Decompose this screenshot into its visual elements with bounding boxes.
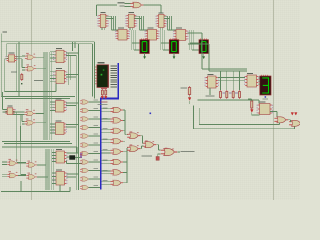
wire U2:A output to bundle: [36, 53, 44, 57]
wire U19 bottom: [209, 88, 211, 95]
wire U10:A output: [37, 152, 46, 165]
555 timer U21: [257, 101, 272, 114]
led D10: [295, 113, 298, 116]
wire U11 outputs: [2, 147, 82, 158]
wire U18 to right cluster: [187, 33, 209, 71]
text under leds: [101, 102, 108, 103]
wire 555 left: [248, 99, 260, 115]
ground dot DISP1: [144, 57, 146, 59]
wire U6:B output to bundle: [35, 110, 46, 123]
wire U4 outputs right: [66, 75, 78, 78]
7-segment display DISP1: [140, 38, 150, 53]
wire block B bottom: [2, 126, 72, 144]
schematic background: [0, 0, 300, 200]
wire long horizontal lower: [7, 44, 93, 190]
wire bundle to IC pin stubs: [50, 52, 56, 184]
wire U3 outputs right: [66, 53, 79, 56]
xor gate U9:A: [7, 161, 18, 166]
wire U5 outputs down to block C: [17, 113, 26, 175]
wire input vertical for gate column: [75, 56, 77, 190]
resistor R1: [21, 73, 23, 81]
nand gate column left G6: [80, 143, 90, 147]
junction dot: [21, 83, 22, 84]
DISP4 bottom label: [263, 98, 269, 99]
led D8: [251, 110, 254, 113]
wire 555 to H9: [270, 112, 277, 117]
wire bundle U18 to display: [190, 30, 194, 50]
wire U9 to U10: [18, 163, 26, 175]
and gate column right H1: [111, 107, 124, 112]
wire return outer loop: [194, 106, 295, 129]
counter U15: [156, 12, 166, 27]
wire stub: [5, 98, 70, 100]
wire DISP2 ground stub: [173, 53, 175, 56]
wire bundle block A: [44, 52, 52, 98]
wire U5 inputs: [3, 92, 8, 112]
xor gate U10:A: [26, 163, 37, 168]
nand gate column left G3: [80, 117, 90, 121]
ground dot DISP3: [203, 57, 205, 59]
wire collector vertical 1: [125, 110, 128, 135]
wire bundle U16 to display: [132, 30, 136, 50]
wire verticals right of U3 U4: [68, 42, 75, 85]
bus main blue: [101, 63, 118, 190]
counter U14: [126, 12, 137, 27]
nand gate column left G1: [80, 100, 90, 104]
nand gate column left G10: [80, 177, 90, 181]
R8 label: [181, 88, 188, 89]
bcd counter U8: [53, 120, 66, 134]
wire DISP1 ground stub: [144, 53, 146, 56]
wire M1 to M3: [141, 136, 144, 144]
display label: [98, 62, 105, 63]
nand gate column left G5: [80, 134, 90, 138]
7-segment display DISP2: [169, 38, 179, 53]
wire bundle U17 to display: [161, 30, 165, 50]
wire DISP3 ground stub: [203, 53, 205, 56]
resistor labels: [223, 93, 226, 94]
led D5: [101, 96, 104, 99]
quad latch U1: [6, 53, 17, 62]
power flag J1: [2, 31, 7, 32]
or gate U2:B: [25, 66, 36, 71]
wire bundle block C: [46, 149, 54, 190]
or gate U6:B: [25, 121, 36, 126]
or gate M3: [142, 142, 156, 148]
wire bundle U13-U16: [112, 16, 116, 30]
nand gate column left G4: [80, 125, 90, 129]
and gate column right H4: [111, 139, 124, 144]
bcd counter U3: [54, 48, 67, 63]
wire loop top left: [97, 5, 118, 16]
7-segment display DISP4: [260, 75, 271, 95]
probe label: [142, 156, 153, 157]
wire bundle U15-U18: [168, 16, 172, 30]
wire U20 to DISP4: [258, 78, 260, 84]
and gate column right H5: [111, 149, 124, 154]
and gate GT: [130, 2, 143, 8]
wire resistor bottoms: [198, 100, 260, 104]
wire long horizontal upper: [1, 42, 94, 99]
wire GT output: [144, 5, 161, 14]
bcd counter U11: [54, 149, 67, 163]
wire from flag down: [0, 34, 2, 97]
wire right gate inputs from bus: [102, 109, 111, 185]
wire probe to M4: [158, 154, 161, 157]
wire M2 to M3: [141, 146, 144, 149]
decoder U18: [174, 27, 188, 40]
resistor R6: [232, 90, 234, 99]
decade counter U19: [205, 74, 218, 88]
wire verticals block A: [16, 42, 19, 97]
resistor R3: [105, 89, 107, 97]
or gate U6:A: [25, 111, 36, 116]
wire U8 outputs right: [66, 125, 79, 128]
wire resistor drops: [221, 71, 240, 90]
sheet divider line right: [273, 0, 275, 200]
wire right gate outputs collectors: [123, 110, 127, 183]
and gate column right H8: [111, 180, 124, 185]
wire H9 to H10: [288, 120, 291, 122]
net label: [34, 80, 43, 81]
wire M3 to M4: [156, 145, 160, 150]
nand gate column left G2: [80, 108, 90, 112]
nand gate column left G7: [80, 151, 90, 155]
bcd counter U7: [53, 98, 66, 112]
wire row1 IC bottom stubs: [102, 28, 162, 31]
or gate U2:A: [25, 55, 36, 60]
bcd counter U4: [54, 68, 67, 83]
and gate column right H6: [111, 159, 124, 164]
wire rows U13 to U14: [106, 16, 170, 18]
wire collector vertical 2: [127, 148, 128, 183]
wire U1 to U2:A: [17, 56, 26, 70]
DISP4 bottom dot: [265, 96, 267, 98]
bcd counter U12: [54, 169, 67, 185]
resistor R7: [239, 90, 241, 99]
wire bundle bottoms into row2: [112, 29, 177, 31]
wire row2 to displays: [132, 43, 200, 50]
sheet divider line left: [31, 0, 33, 200]
nand gate column left G9: [80, 168, 90, 172]
7-segment display DISP3: [199, 38, 209, 53]
wire top rails: [202, 69, 247, 71]
led D7: [188, 98, 191, 101]
and gate column right H2: [111, 118, 124, 123]
resistor R2: [101, 89, 103, 97]
or gate M1: [127, 133, 140, 139]
net label: [11, 72, 17, 73]
wire GT inputs: [125, 4, 131, 7]
wire U1 inputs: [4, 44, 8, 92]
connector JP1: [80, 153, 82, 158]
wire block A bottom: [1, 83, 75, 96]
ground dot DISP2: [173, 57, 175, 59]
resistor R5: [226, 90, 228, 99]
counter U13: [98, 12, 108, 27]
wire U19 to U20: [218, 78, 245, 81]
logic probe LP1: [156, 157, 159, 161]
crystal X1: [70, 156, 76, 160]
nand gate column left G11: [80, 185, 90, 189]
wire R8: [189, 96, 191, 104]
resistor R9: [251, 100, 253, 110]
and gate column right H3: [111, 128, 124, 133]
decoder U17: [145, 27, 159, 40]
led D9: [291, 113, 294, 116]
nand gate column left G8: [80, 160, 90, 164]
wire return inner loop: [199, 108, 279, 125]
display pin name text column: [111, 66, 117, 67]
wire block C bottom: [1, 181, 70, 192]
xor gate U9:B: [7, 173, 18, 178]
or gate M4 final: [161, 148, 177, 155]
junction dot: [150, 113, 152, 115]
quad latch U5: [5, 106, 15, 115]
red pin label: [101, 88, 107, 89]
GT input labels: [118, 2, 125, 3]
or gate M2: [127, 146, 140, 152]
wire M4 output: [178, 151, 181, 153]
resistor R8: [188, 86, 190, 96]
wire U7 outputs right: [66, 103, 79, 106]
wire U2:B output to bundle: [36, 60, 46, 69]
and gate column right H7: [111, 170, 124, 175]
wire U10:B output: [37, 160, 48, 177]
bargraph display DS1: [96, 65, 109, 88]
led D6: [105, 96, 108, 99]
U19 bottom label: [206, 96, 215, 97]
and gate H10: [289, 120, 303, 126]
wire U6:A output to bundle: [35, 102, 44, 113]
and gate H9: [274, 117, 288, 123]
output net label: [181, 151, 195, 152]
wire left gate outputs to bus: [88, 102, 100, 188]
wire bundle U14-U17: [140, 16, 144, 30]
wire bundle block B: [44, 96, 52, 140]
xor gate U10:B: [26, 175, 37, 180]
bcd decoder U20: [245, 73, 259, 87]
resistor R4: [220, 90, 222, 99]
decoder U16: [116, 27, 130, 40]
wire U12 region: [66, 161, 82, 178]
wire U5 to U6: [13, 112, 25, 124]
wire inputs block C: [2, 162, 7, 177]
